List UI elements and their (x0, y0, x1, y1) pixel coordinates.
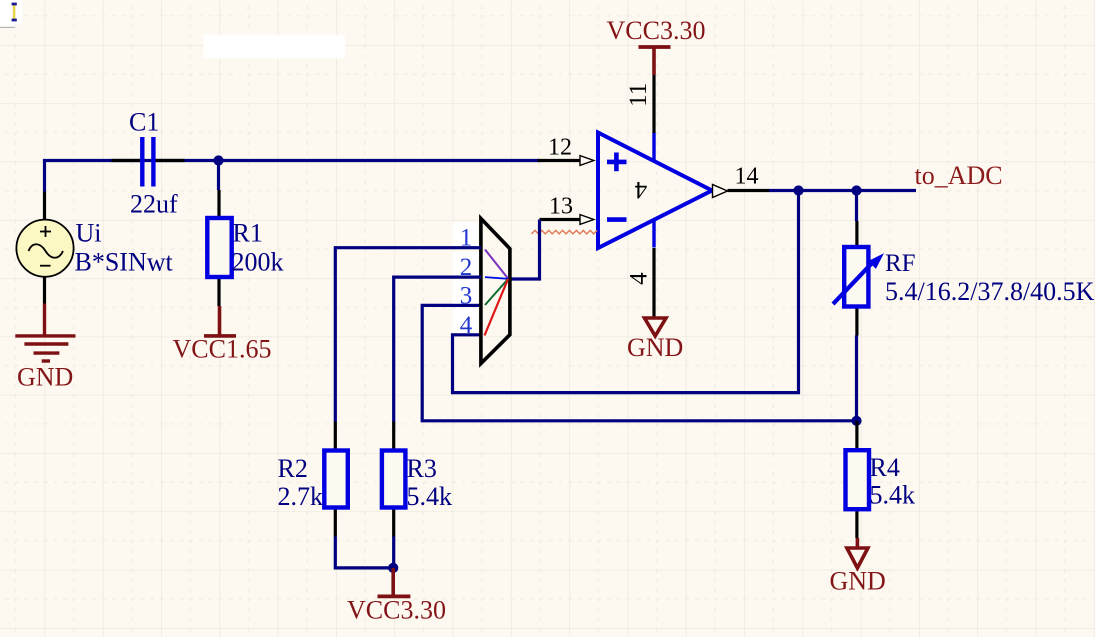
op-amp (598, 133, 712, 249)
svg-text:4: 4 (460, 312, 473, 339)
svg-text:3: 3 (460, 282, 473, 309)
wire: junction C1/R1 vertical stub (217, 161, 220, 191)
svg-text:11: 11 (625, 83, 652, 107)
svg-text:R4: R4 (870, 453, 900, 482)
wire: mux pin 2 to R3 (394, 277, 481, 421)
wire: RF bottom to divider junction (855, 336, 858, 422)
power port VCC3.30 below R2/R3 (378, 568, 411, 597)
resistor R4 (846, 421, 870, 538)
wire: output net to_ADC (769, 189, 916, 192)
mux select line pin 1 (purple) (485, 250, 508, 279)
svg-text:GND: GND (627, 333, 683, 362)
svg-text:1: 1 (460, 225, 473, 252)
rheostat RF (833, 221, 884, 336)
svg-text:2.7k: 2.7k (278, 482, 324, 511)
wire: RF top stub (855, 191, 858, 222)
svg-text:GND: GND (17, 363, 73, 392)
svg-text:5.4k: 5.4k (407, 482, 453, 511)
svg-text:4: 4 (626, 272, 653, 285)
resistor R1 (207, 190, 231, 306)
svg-text:VCC3.30: VCC3.30 (347, 596, 446, 625)
wire: feedback from output junction down-left to mux pin 4 (453, 191, 799, 393)
mux select line pin 3 (green) (485, 279, 508, 305)
wire: divider node to mux pin 3 (422, 305, 856, 420)
power ground GND under R4 (847, 538, 868, 568)
junction at output / feedback node (793, 185, 803, 195)
svg-text:13: 13 (549, 194, 573, 220)
power ground GND under op-amp (645, 318, 667, 336)
svg-text:R1: R1 (233, 219, 263, 248)
source Ui symbol (16, 192, 73, 304)
power port VCC3.30 above op-amp (639, 47, 671, 75)
svg-text:VCC3.30: VCC3.30 (607, 16, 706, 45)
power port VCC1.65 under R1 (204, 306, 236, 336)
svg-text:12: 12 (548, 135, 572, 161)
junction at R2/R3 VCC node (388, 563, 398, 573)
svg-text:Ui: Ui (76, 219, 102, 248)
svg-text:22uf: 22uf (130, 190, 178, 219)
svg-text:5.4k: 5.4k (870, 481, 916, 510)
junction at RF / R4 divider node (851, 416, 861, 426)
wire: mux pin 1 to R2 (335, 248, 481, 422)
op-amp output pin 14 (713, 185, 770, 198)
wire: main input net from source to op-amp pin 12 (45, 161, 541, 192)
svg-text:5.4/16.2/37.8/40.5K: 5.4/16.2/37.8/40.5K (885, 277, 1095, 306)
svg-text:R2: R2 (278, 454, 308, 483)
wire: R2 bottom to VCC junction (335, 537, 393, 568)
svg-text:GND: GND (830, 567, 886, 596)
ERC squiggle marker under pin 13 (532, 230, 598, 234)
op-amp pin 12 (538, 156, 594, 166)
svg-text:to_ADC: to_ADC (915, 161, 1003, 190)
junction at C1 / R1 node (213, 155, 223, 165)
wire: from mux output to op-amp pin 13 (508, 220, 540, 280)
junction at output / RF node (851, 185, 861, 195)
op-amp pin 13 (540, 215, 594, 225)
svg-text:B*SINwt: B*SINwt (75, 248, 174, 277)
svg-text:R3: R3 (407, 454, 437, 483)
op-amp ground pin 4 (652, 248, 655, 318)
ground GND under source (15, 304, 75, 362)
svg-text:4: 4 (634, 176, 647, 203)
mux select line pin 2 (blue) (485, 277, 508, 279)
svg-text:C1: C1 (129, 108, 159, 137)
resistor R2 (324, 422, 348, 537)
capacitor C1 (112, 137, 185, 187)
partial component marker top-left (0, 0, 23, 27)
mux pin number backgrounds (453, 223, 479, 334)
svg-text:14: 14 (735, 164, 759, 190)
wire: R3 bottom to VCC junction (392, 537, 395, 568)
mux select line pin 4 (red) (485, 279, 509, 336)
svg-text:RF: RF (885, 250, 916, 277)
mux / switch trapezoid (481, 219, 510, 364)
svg-text:2: 2 (460, 254, 473, 281)
white overlay box (204, 35, 346, 59)
svg-text:VCC1.65: VCC1.65 (173, 335, 272, 364)
svg-text:200k: 200k (232, 248, 284, 277)
resistor R3 (382, 422, 406, 537)
op-amp power pin 11 (652, 75, 655, 133)
